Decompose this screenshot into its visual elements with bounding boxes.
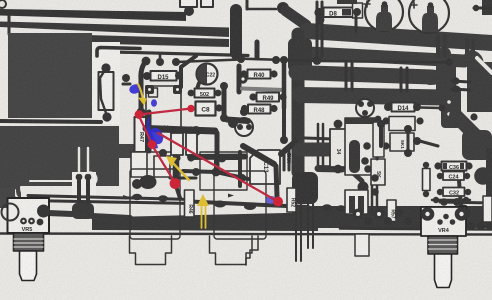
wire tile edge [123,83,130,86]
pad leg a [76,174,83,181]
stitch via b [443,36,447,56]
pad ring left [238,74,247,83]
inner square [149,88,158,97]
pad IC b [361,157,369,165]
pad 5K a [371,174,379,182]
pad bottom curve [137,108,146,117]
leg clearance a [78,148,80,173]
blob under legs [72,203,94,219]
pad wire top [220,82,228,90]
plane gap curve a [21,187,28,196]
wire V1 top stub [246,0,249,9]
resistor R47 pad top [136,110,144,118]
pad row200 b [463,197,469,203]
VR4 bushing [428,236,458,254]
pad row a [237,55,245,63]
pad sq a hole [148,88,151,91]
VR5 pad 2 [28,218,35,225]
pad sq b hole [176,88,179,91]
wire pair 5KX b [288,150,291,170]
pad R37 top [375,116,382,123]
pad bus bump e [322,204,332,210]
wire under boxes a [379,128,383,146]
pad C32 right [465,189,471,195]
housing H3 partial outline [246,236,258,265]
annotation yellow arrow 1 head [138,98,147,106]
capacitor C32 outline [443,188,465,197]
pad R55 bottom [423,191,429,197]
pad y202 b [453,198,461,206]
pad row200 a [433,197,439,203]
capacitor C36 cap a [443,163,447,169]
VR5 shaft outline [20,251,37,281]
pad Cb bottom [187,154,194,161]
pads bottom row d [384,217,392,225]
wire diag C [456,116,480,140]
VR4 pad left [421,207,435,221]
wire diagonal feed [286,11,306,25]
VR4 pad s3 [450,219,456,225]
resistor R51 outline [287,188,296,212]
wire D14 right [420,106,440,109]
pad sq b [173,85,182,94]
VR5 bushing [14,233,44,251]
resistor R49 pads left [249,93,256,100]
wire VB4 jog [477,78,489,91]
Q bus mass [292,206,318,231]
annotation red line C-D [152,145,175,183]
wire mid net [222,156,240,160]
annotation yellow arrow 3 shaft [202,205,206,228]
annotation blue blob b1 [128,83,142,95]
annotation red line A-C [139,116,152,144]
wire bus thin b [28,201,192,204]
capacitor S1 outline [180,0,197,7]
pads bottom row a [353,209,364,220]
wire C22 tail [196,83,199,92]
wire pair 5KX a [283,150,286,170]
wire net2 drop [214,160,218,172]
pad bump d [244,203,256,210]
wire right of C8 [222,86,227,118]
wire VB mid [292,34,305,172]
pad bump c [214,201,226,208]
pad bump b [158,195,168,201]
wire TRvert [215,133,220,170]
transistor window outline [146,86,181,152]
corner dark top right [482,0,492,15]
wire blob to bus [92,216,130,218]
pad bump a [132,194,142,200]
wire pair D4 b [406,68,409,91]
annotation red dot B [187,105,194,112]
pads bottom row c [374,209,385,220]
box IC inner bar [349,140,360,173]
pad net3 [212,168,221,177]
junction blob VBmid top [288,38,312,72]
wire bus mid [190,202,308,208]
ground plane P2 left [0,126,21,208]
panel line [0,234,492,235]
switch housing H1 outline [130,236,172,265]
wire C23 link [227,120,248,122]
wire V1 vertical [230,10,242,53]
switch housing H2 outline [210,236,253,265]
resistor R40 outline [248,70,271,79]
pad C23 b [246,124,252,130]
pad C36 right [465,162,472,169]
pad R55 top [423,162,429,168]
ground plane P1 [8,33,92,118]
plane P2 gap line3 [30,180,95,182]
wire vert D [173,150,180,177]
box under D14 second [390,133,414,151]
pad R34 bottom [334,165,343,174]
pad top node [277,2,289,14]
VR5 rotor circle [2,204,19,221]
wire THB1 [307,31,492,43]
VR4 pad right hole [459,212,463,216]
resistor vertical in cutout [99,72,114,110]
pad row b [272,56,280,64]
pad corner [0,0,6,8]
wire right cluster a [407,131,410,150]
plane cutout white [92,42,120,124]
top component bar [337,0,357,4]
pad C24 right [464,173,470,179]
annotation yellow arrow 1 [138,84,143,100]
wire bar D4 [300,95,443,98]
outline window mid [200,152,247,190]
wire frame left edge [8,14,11,34]
pad leg b [85,174,92,181]
ground plane P2 bump [119,144,143,158]
wire B3 corner up [430,54,444,78]
support leg outline [355,234,369,256]
wire L4 tick [159,55,162,60]
VR5 pad 3 [37,219,44,226]
leg Q2 [300,204,302,261]
pad T2 c [362,110,368,116]
stitch via c [465,40,469,60]
via hole slab a [447,100,451,104]
box under D14 outline [389,117,415,131]
capacitor C22 circle [197,64,218,85]
VR5 pad 1 hole [22,220,24,222]
resistor R46 outline [185,190,195,217]
box right of D8 [353,3,363,18]
potentiometer VR4 outline [421,207,466,236]
leg Q1 [295,204,297,261]
component window two-leg [72,172,96,206]
housing H1 body outline [130,169,180,239]
annotation red dot C [148,140,157,149]
pad D8 left [314,8,323,17]
wire net2 [183,171,216,172]
wire VBmid branch thin [305,138,334,139]
resistor R50 outline [195,89,215,98]
pad big lower b [132,179,142,189]
blob D [462,130,492,160]
wire node row y61 right [318,61,452,63]
annotation yellow arrow 3 head [197,194,209,206]
capacitor E2 dome [422,6,438,32]
pad boxes c [382,142,389,149]
diode D8 outline [324,8,354,18]
potentiometer VR5 outline [8,198,50,233]
wire pair D4 a [400,68,403,91]
pad T2 a [358,101,364,107]
pad ring hole [241,77,244,80]
capacitor C22 inner [197,64,207,84]
wire zigzag in cutout [100,70,106,113]
bar small b [358,196,364,213]
wire net3 [170,177,196,180]
capacitor can E1 outline [365,0,403,31]
wire mid pair b [321,2,324,56]
pads bottom row c hole [377,212,381,216]
plane gap curve b [15,190,27,201]
wire vert pair mid b [351,62,354,90]
pads right bottom b [477,222,485,230]
plus mark E2 [411,2,417,8]
capacitor C24 outline [443,172,464,181]
capacitor C36 cap b [460,163,464,169]
wire pad link [139,113,149,114]
pad in plane [86,175,94,183]
pad E2 stem [428,2,434,8]
pad Ca top [173,126,180,133]
resistor R50 pad left [188,90,195,97]
wire L4 thin [96,52,248,56]
via hole slab b [447,112,451,116]
capacitor can E2 outline [409,0,449,33]
wire row y200 [432,199,470,201]
diode D15 pad left [143,72,151,80]
pads right bottom a [467,222,475,230]
pad R40 right [270,70,277,77]
pad right big [474,167,492,185]
box 5K outline [371,159,385,185]
wire curve left of D15 [141,61,146,110]
wire L3 bus [86,35,229,47]
pad top curve [142,57,151,66]
pad right a [452,77,459,84]
pad net4 [238,174,246,182]
capacitor C24 pad left [437,173,443,179]
resistor R40 pads [240,70,247,77]
wire top right tick [474,7,491,10]
pads bottom row e [395,209,403,217]
wire top thin to pad [247,8,276,11]
wire VR5 link [48,213,72,214]
capacitor C36 outline [442,162,467,171]
pad under boxes [377,120,385,128]
pad row c [280,56,288,64]
wire gray bar [242,89,284,91]
pad big lower [140,175,157,189]
pad R34 top [334,120,343,129]
wire mid right diag [350,170,362,181]
pad to C-top [184,6,194,16]
pad C8 right [215,104,222,111]
wire bus lower [92,213,306,232]
pad sq a [145,85,154,94]
pad drop left [172,58,180,66]
VR5 pad 2 hole [30,220,32,222]
wire thin pair mid b [322,124,325,167]
leg wire a [77,177,81,206]
pad E1 stem [382,1,388,7]
pad D8 right [353,8,361,16]
wire mid pair a [316,2,319,56]
column B [467,62,492,112]
wire L2 bus [0,22,229,38]
annotation red line blob-E [158,133,277,201]
capacitor C13 outline [250,150,280,184]
annotation blue blob b3b [147,126,165,147]
pad C23 top [228,118,238,128]
stitch via d [471,40,475,60]
wire bus thin a [28,196,192,200]
column B gap [477,58,492,73]
wire T1 corner trace [97,48,140,57]
wire node row y60 [236,59,318,62]
VR4 shaft outline [435,254,452,288]
pad IC c [364,165,372,173]
annotation yellow arrow 2 head [166,156,177,167]
pad right b [452,85,459,92]
wire diag lower [243,146,274,164]
resistor R49 outline [257,93,280,102]
wire VB4 right column [471,57,477,86]
bus right underline [340,229,492,230]
annotation blue streak b3 [147,117,158,148]
pad T2 b [367,101,373,107]
pad tile edge [122,74,130,82]
pad right col lower [280,136,288,144]
wire L5 thin [0,121,101,122]
VR4 bushing hatch [429,240,457,249]
wire right thin a [452,81,470,82]
VR4 pad right [455,207,469,221]
leg Q3 [307,204,309,248]
wire left col top [255,42,260,57]
capacitor S2 outline [201,0,213,7]
wire net1 [190,154,245,161]
annotation red dot D [170,178,181,189]
annotation red dot A [135,110,144,119]
pad mid right [358,182,369,193]
pad Ca bottom [173,154,180,161]
pad below 2K [159,149,167,157]
pad D15 right [175,72,183,80]
pad in cutout [101,63,110,72]
wire D down [176,186,180,198]
pad D14 right [413,103,421,111]
pad net [218,154,227,163]
pads bottom row f [404,217,412,225]
annotation red line A-B [139,109,191,115]
pad D14 left [384,103,392,111]
pad right cluster c [413,137,421,145]
wire C13 up diag [281,142,295,154]
wire thin row left [176,60,240,63]
transistor Q blob [292,172,318,204]
wire in window vert [238,152,242,186]
wire vert right mid [458,168,461,206]
pads right bottom c [486,222,492,230]
wire right col lower [282,108,286,138]
capacitor C8 outline [196,102,216,116]
resistor R57 outline [387,200,396,222]
capacitor Cb outline [186,133,197,155]
pad row e [445,58,452,65]
VR4 pad s2 [443,214,449,220]
pad under column [240,108,248,116]
marker arrow small a [123,195,129,199]
pad top right [473,5,479,11]
wire THB2 [299,53,464,62]
pad R48 right [270,105,277,112]
diode D14 outline [392,103,415,112]
wire mid right horiz [318,165,342,173]
leg Q4 [312,204,314,248]
resistor R47 outline [135,117,147,152]
annotation red dot E [273,197,283,207]
VR5 pad 1 [20,218,27,225]
wire right cluster c [416,140,438,146]
pads bottom row a hole [356,212,360,216]
wire row y202 right [440,202,492,203]
slab A [441,86,461,128]
left edge dark block [0,188,15,208]
pad wire bottom [220,114,228,122]
capacitor Ca outline [171,133,183,155]
wire thin pair right b [376,122,379,214]
housing H2 body outline [214,171,266,239]
capacitor C36 pad left [434,162,441,169]
diode D8 band [342,9,351,16]
pad below D8 [316,16,325,25]
leg wire b [86,177,90,206]
pad right blob [456,205,471,220]
resistor R48 pad left [241,105,248,112]
wire L1 top bus [0,9,186,21]
pad gap [470,113,477,120]
capacitor E1 dome [376,5,392,31]
pad boxes a [382,117,389,124]
wire mid drop [181,56,196,87]
pad 5K b [371,188,379,196]
pad right cluster b [404,149,412,157]
capacitor C23 circle [235,118,253,136]
wire thin pair mid a [317,124,320,167]
wire B3 [296,73,432,78]
wire branch Ma [300,143,331,157]
capacitor C32 pad left [437,189,443,195]
annotation blue blob b2 [151,99,157,107]
leg clearance b [87,148,89,173]
transistor T2 circle [356,99,374,117]
VR5 bushing hatch [14,239,43,247]
annotation yellow arrow 2 [171,161,189,180]
wire riser E [276,166,277,196]
pad C23 a [237,124,243,130]
pad bus bump f [336,205,346,211]
VR5 big pad [37,205,50,218]
resistor R55 outline [423,169,431,191]
